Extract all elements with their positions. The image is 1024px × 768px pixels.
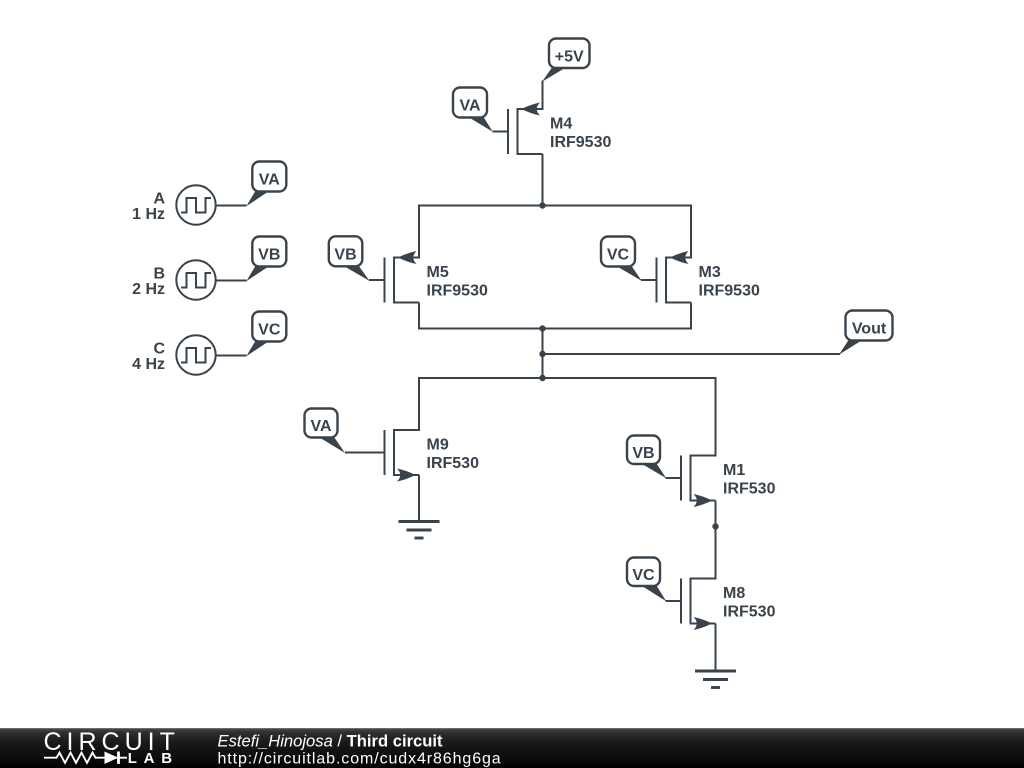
svg-text:IRF9530: IRF9530 bbox=[699, 283, 760, 300]
wire top rail to M5 source bbox=[418, 205, 420, 259]
svg-text:VC: VC bbox=[607, 247, 630, 264]
node junction Vout tap bbox=[539, 351, 545, 357]
ground (below M9) bbox=[399, 522, 440, 539]
net flag VC (gate of M3) bbox=[601, 237, 642, 281]
svg-text:IRF9530: IRF9530 bbox=[550, 134, 611, 151]
svg-text:VC: VC bbox=[258, 322, 281, 339]
net flag VA (source A) bbox=[246, 162, 286, 207]
wire M3 drain to bottom rail bbox=[690, 303, 692, 330]
wire NMOS top rail bbox=[418, 377, 717, 379]
wire M4 drain to top rail bbox=[542, 154, 544, 207]
wire bottom rail (PMOS drains) bbox=[418, 328, 692, 330]
svg-text:M1: M1 bbox=[723, 462, 745, 479]
node junction at M4 drain / top rail bbox=[539, 202, 545, 208]
ground (below M8) bbox=[695, 671, 736, 688]
svg-text:VA: VA bbox=[310, 418, 331, 435]
node junction mid / NMOS rail bbox=[539, 375, 545, 381]
voltage source V2 (B, 2 Hz) bbox=[132, 260, 216, 299]
wire M5 drain to bottom rail bbox=[418, 303, 420, 330]
svg-text:1 Hz: 1 Hz bbox=[132, 206, 165, 223]
voltage source V3 (C, 4 Hz) bbox=[132, 335, 216, 374]
svg-text:LAB: LAB bbox=[128, 750, 179, 767]
svg-text:VA: VA bbox=[259, 172, 280, 189]
node junction between M1 and M8 bbox=[712, 523, 718, 529]
net flag Vout bbox=[839, 311, 893, 355]
svg-text:IRF530: IRF530 bbox=[427, 455, 480, 472]
wire rail to M9 drain bbox=[418, 377, 420, 431]
transistor M1 IRF530 (NMOS) bbox=[666, 455, 776, 508]
wire M9 source to ground bbox=[418, 475, 420, 523]
net flag VB (source B) bbox=[246, 237, 286, 282]
svg-text:IRF530: IRF530 bbox=[723, 481, 776, 498]
svg-text:B: B bbox=[153, 266, 165, 283]
svg-text:Vout: Vout bbox=[852, 321, 887, 338]
net flag VA (gate of M9) bbox=[305, 409, 346, 454]
wire from source B to VB flag bbox=[216, 280, 247, 282]
svg-text:Estefi_Hinojosa / Third circui: Estefi_Hinojosa / Third circuit bbox=[218, 732, 444, 751]
svg-text:http://circuitlab.com/cudx4r86: http://circuitlab.com/cudx4r86hg6ga bbox=[218, 751, 502, 768]
node junction bottom rail / mid wire bbox=[539, 325, 545, 331]
svg-text:VA: VA bbox=[459, 98, 480, 115]
svg-text:4 Hz: 4 Hz bbox=[132, 356, 165, 373]
net flag VB (gate of M5) bbox=[329, 236, 370, 281]
svg-text:C: C bbox=[153, 341, 165, 358]
svg-text:M9: M9 bbox=[427, 437, 449, 454]
transistor M8 IRF530 (NMOS) bbox=[666, 578, 776, 631]
logo resistor symbol bbox=[44, 753, 101, 763]
svg-text:VB: VB bbox=[258, 247, 280, 264]
wire M1 source to M8 drain bbox=[715, 501, 717, 580]
net flag VC (source C) bbox=[246, 312, 286, 357]
svg-text:M4: M4 bbox=[550, 116, 572, 133]
svg-text:M5: M5 bbox=[427, 264, 449, 281]
net flag VC (gate of M8) bbox=[627, 558, 666, 602]
wire +5V to M4 source bbox=[542, 81, 544, 111]
wire top rail to M3 source bbox=[690, 205, 692, 259]
svg-text:A: A bbox=[153, 191, 165, 208]
transistor M9 IRF530 (NMOS) bbox=[345, 429, 479, 482]
wire mid vertical to output node bbox=[542, 329, 544, 379]
net flag VA (gate of M4) bbox=[453, 88, 493, 132]
wire from source C to VC flag bbox=[216, 355, 247, 357]
wire top rail bbox=[418, 205, 692, 207]
wire rail to M1 drain bbox=[715, 377, 717, 457]
wire to Vout flag bbox=[543, 353, 841, 355]
svg-text:M8: M8 bbox=[723, 585, 745, 602]
svg-text:VB: VB bbox=[632, 445, 654, 462]
wire M8 source to ground bbox=[715, 624, 717, 673]
svg-text:+5V: +5V bbox=[555, 48, 584, 65]
svg-text:VB: VB bbox=[334, 246, 356, 263]
logo diode symbol bbox=[105, 752, 119, 764]
svg-text:IRF9530: IRF9530 bbox=[427, 283, 488, 300]
wire from source A to VA flag bbox=[216, 205, 247, 207]
voltage source V1 (A, 1 Hz) bbox=[132, 185, 216, 224]
transistor M5 IRF9530 (PMOS) bbox=[369, 251, 488, 304]
power flag +5V bbox=[542, 39, 590, 82]
transistor M4 IRF9530 (PMOS) bbox=[493, 103, 612, 156]
svg-text:2 Hz: 2 Hz bbox=[132, 281, 165, 298]
net flag VB (gate of M1) bbox=[627, 436, 666, 479]
svg-text:VC: VC bbox=[632, 567, 655, 584]
footer bar bbox=[0, 728, 1024, 768]
svg-text:IRF530: IRF530 bbox=[723, 604, 776, 621]
svg-text:M3: M3 bbox=[699, 264, 721, 281]
transistor M3 IRF9530 (PMOS) bbox=[641, 251, 760, 304]
